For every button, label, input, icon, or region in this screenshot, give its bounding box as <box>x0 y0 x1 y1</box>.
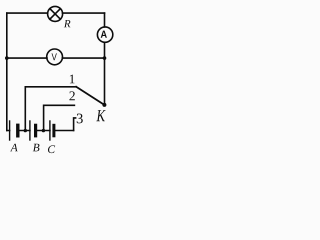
label 2 <box>69 91 74 100</box>
label 3 <box>77 114 83 124</box>
battery short electrode cell B <box>34 125 37 136</box>
wire voltmeter row left <box>7 57 47 59</box>
junction dot left voltmeter tap <box>5 56 9 60</box>
voltmeter V circle <box>47 49 63 65</box>
wire right vertical lower <box>104 42 106 105</box>
ammeter A circle <box>97 27 112 42</box>
battery short electrode cell A <box>16 125 19 136</box>
wire voltmeter row right <box>62 57 104 59</box>
label C battery cell <box>48 145 55 153</box>
wire right vertical upper <box>104 13 106 27</box>
label 1 <box>70 75 75 84</box>
junction dot battery tap 1 <box>24 129 27 132</box>
contact line 2 with tap from battery <box>44 105 75 130</box>
label K <box>96 110 105 121</box>
switch blade K <box>76 87 104 105</box>
label R <box>64 20 71 27</box>
junction dot battery tap 2 <box>42 129 45 132</box>
contact 3 stub riser <box>74 118 76 131</box>
label A battery cell <box>10 144 18 152</box>
lamp X diagonals <box>50 9 61 20</box>
battery long electrode cell C <box>49 121 51 140</box>
battery wire segments <box>7 130 74 132</box>
label A ammeter <box>101 31 107 38</box>
switch pivot dot K <box>102 103 106 107</box>
battery short electrode cell C <box>52 125 55 136</box>
lamp R circle <box>48 6 63 21</box>
junction dot right voltmeter tap <box>103 56 107 60</box>
label V voltmeter <box>52 53 57 60</box>
label B battery cell <box>33 144 40 152</box>
wire top right <box>63 12 105 14</box>
battery long electrode cell B <box>29 121 31 140</box>
wire top left <box>7 12 48 14</box>
battery long electrode cell A <box>9 121 11 140</box>
wire left vertical <box>6 13 8 130</box>
contact line 1 with tap from battery <box>25 87 76 131</box>
